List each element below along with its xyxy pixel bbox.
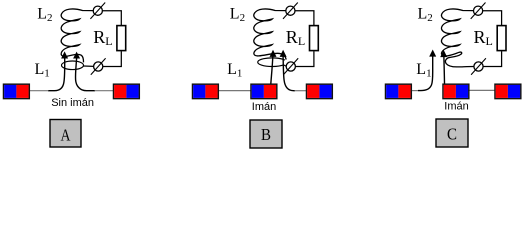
svg-text:L2: L2 [37,6,52,25]
wire top meter to RL (panel C) [483,11,502,25]
svg-text:A: A [61,125,72,144]
single-turn loop L1 (panel B) [258,58,285,67]
galvanometer G2 bottom (panel B) [286,62,295,71]
galvanometer G1 top (panel C) [474,6,483,15]
wire top meter to RL (panel A) [103,11,122,25]
flux arrow right (panel A) [73,52,80,59]
galvanometer G1 top (panel B) [286,6,295,15]
svg-text:Imán: Imán [252,101,276,113]
lead wire to right magnet (panel A) [95,90,114,92]
wire left magnet to middle magnet (panel B) [218,90,251,92]
bar magnet left (panel C) [386,84,412,98]
flux arrow left (panel B) [270,50,277,57]
bar magnet left (panel A) [4,84,30,98]
bar magnet right (panel C) [495,84,521,98]
resistor RL (panel A) [117,26,126,51]
flux arrow left (panel A) [61,51,68,58]
loop L1 to bottom meter link (panel B) [284,65,287,67]
wire middle magnet to right magnet (panel C) [467,89,495,91]
bar magnet middle (panel C) [443,84,469,98]
svg-text:L1: L1 [35,61,50,80]
resistor RL (panel B) [310,26,319,51]
svg-text:L2: L2 [230,6,245,25]
svg-text:Imán: Imán [444,101,468,113]
svg-text:Sin imán: Sin imán [51,97,94,109]
flux arrow right (panel B) [280,50,287,57]
bar magnet left (panel B) [193,84,219,98]
svg-text:RL: RL [286,27,305,48]
flux arrow left (panel C) [429,50,436,57]
coil L2 (panel A) [61,9,94,62]
wire top meter to RL (panel B) [295,11,314,25]
svg-text:B: B [261,125,271,144]
bar magnet middle (panel B) [251,84,277,98]
svg-text:L1: L1 [227,61,242,80]
right leg wire (panel B) [283,57,295,91]
wire loop L1 to bottom meter (panel A) [83,65,93,67]
answer box A [50,120,81,148]
galvanometer G2 bottom (panel A) [94,62,103,71]
resistor RL (panel C) [497,26,506,51]
bar magnet right (panel B) [307,84,333,98]
svg-text:L2: L2 [418,6,433,25]
svg-text:C: C [447,125,457,144]
wire RL to bottom meter (panel B) [296,51,314,66]
lead wire from left magnet (panel C) [411,90,419,92]
right leg wire to middle magnet (panel C) [443,57,446,84]
lead wire to left magnet (panel A) [29,90,48,92]
wire RL to bottom meter (panel A) [103,51,121,66]
left leg wire to middle magnet (panel B) [271,57,273,85]
coil L2 (panel B) [254,9,287,60]
answer box B [250,120,282,148]
bar magnet right (panel A) [114,84,140,98]
left leg wire (panel A) [48,58,65,90]
left leg wire (panel C) [418,56,433,91]
wire RL to bottom meter (panel C) [483,51,501,66]
svg-text:L1: L1 [416,61,431,80]
right leg wire (panel A) [76,58,95,90]
flux arrow right (panel C) [440,50,447,57]
galvanometer G2 bottom (panel C) [474,62,483,71]
answer box C [436,119,468,147]
galvanometer G1 top (panel A) [93,6,102,15]
lead wire to right magnet (panel B) [295,90,307,92]
svg-text:RL: RL [474,27,493,48]
single-turn loop L1 (panel A) [62,61,84,70]
svg-text:RL: RL [93,27,112,48]
coil L2 with single-turn curl L1 (panel C) [441,9,474,67]
